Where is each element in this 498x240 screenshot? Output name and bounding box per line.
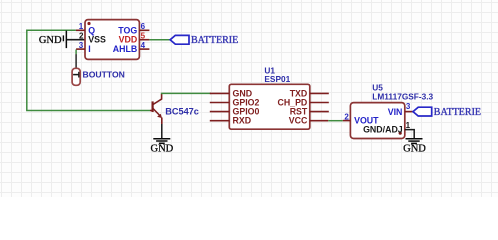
svg-text:I: I	[88, 44, 90, 54]
svg-text:GND/ADJ: GND/ADJ	[363, 124, 403, 134]
U5 pin 2 (VOUT)	[343, 112, 379, 125]
svg-text:6: 6	[141, 22, 146, 31]
svg-text:VCC: VCC	[289, 116, 308, 126]
wire: collector to ESP01 GND pin	[162, 92, 211, 95]
U1 pin GPIO2	[210, 98, 260, 108]
net flag BATTERIE (top)	[170, 35, 238, 46]
svg-text:BATTERIE: BATTERIE	[191, 35, 238, 46]
IC U2 pin 3 (I)	[76, 41, 91, 54]
wire: U1 VCC to U5 VOUT	[328, 120, 343, 122]
ground symbol GND (earth) at U5 ADJ pin	[403, 139, 426, 155]
svg-text:GND: GND	[403, 144, 426, 155]
U1 pin RST	[290, 107, 329, 117]
ground symbol GND (earth) under transistor	[151, 124, 174, 155]
svg-text:4: 4	[141, 41, 146, 50]
svg-text:5: 5	[141, 32, 146, 41]
svg-text:3: 3	[79, 41, 84, 50]
U5 pin 1 (GND/ADJ)	[363, 121, 414, 139]
IC U1 ESP01 body	[229, 66, 309, 130]
svg-text:GND: GND	[151, 144, 174, 155]
svg-text:BOUTTON: BOUTTON	[83, 70, 125, 80]
svg-text:GND: GND	[39, 35, 62, 46]
svg-text:VSS: VSS	[88, 35, 106, 45]
svg-text:AHLB: AHLB	[113, 44, 137, 54]
U1 pin VCC	[289, 116, 329, 126]
IC U2 pin 2 (VSS)	[79, 32, 106, 45]
U1 pin RXD	[210, 116, 251, 126]
U5 pin 3 (VIN)	[388, 102, 413, 117]
svg-text:ESP01: ESP01	[264, 74, 290, 84]
IC U2 pin 1 (Q)	[76, 22, 95, 35]
svg-text:2: 2	[344, 112, 349, 121]
svg-text:VIN: VIN	[388, 107, 403, 117]
wire: IC pin1 to transistor base	[27, 30, 150, 110]
transistor Q1 BC547c	[150, 94, 199, 124]
svg-text:1: 1	[406, 121, 411, 130]
U1 pin GND	[210, 88, 252, 98]
wire: IC pin5 to BATTERIE flag	[149, 39, 170, 41]
wire: IC pin3 down to button	[75, 50, 77, 69]
IC U2 pin 4 (AHLB)	[113, 41, 150, 54]
IC U2 body (touch sensor chip)	[85, 20, 139, 60]
svg-text:LM1117GSF-3.3: LM1117GSF-3.3	[372, 91, 433, 101]
net flag BATTERIE (right)	[413, 107, 481, 118]
IC U2 pin 5 (VDD)	[119, 32, 150, 45]
svg-text:BC547c: BC547c	[165, 107, 199, 117]
U1 pin CH_PD	[277, 98, 328, 108]
svg-text:3: 3	[406, 102, 411, 111]
svg-text:2: 2	[79, 32, 84, 41]
regulator U5 LM1117GSF-3.3 body	[350, 83, 433, 139]
svg-text:1: 1	[79, 22, 84, 31]
U1 pin GPIO0	[210, 107, 260, 117]
power flag GND (bar style) at IC pin 2	[39, 31, 85, 48]
U1 pin TXD	[290, 88, 329, 98]
push button S1 (BOUTTON)	[72, 68, 125, 85]
svg-text:RXD: RXD	[233, 116, 252, 126]
svg-text:BATTERIE: BATTERIE	[434, 107, 481, 118]
IC U2 pin 6 (TOG)	[118, 22, 149, 35]
